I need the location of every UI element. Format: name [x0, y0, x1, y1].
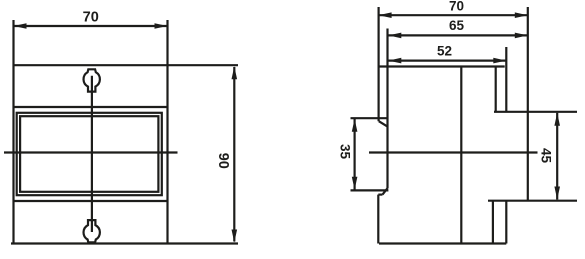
- svg-text:65: 65: [449, 18, 465, 33]
- svg-text:45: 45: [538, 148, 553, 164]
- svg-text:70: 70: [449, 0, 464, 13]
- svg-text:90: 90: [215, 153, 231, 169]
- svg-text:35: 35: [337, 144, 352, 160]
- svg-text:52: 52: [437, 44, 452, 59]
- svg-text:70: 70: [83, 10, 99, 26]
